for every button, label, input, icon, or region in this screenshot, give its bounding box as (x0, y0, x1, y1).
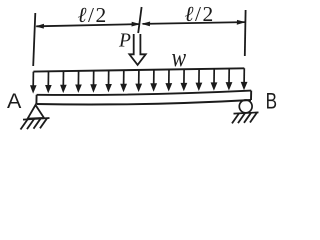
load arrow 15 (241, 68, 248, 90)
pin hatch 3 (34, 119, 41, 129)
svg-text:w: w (172, 44, 187, 72)
distributed load line (33, 68, 244, 71)
roller hatch 3 (244, 113, 251, 123)
beam bottom line (36, 100, 251, 105)
dimension line right half (143, 22, 246, 24)
roller ground line (234, 112, 259, 113)
roller hatch 1 (232, 113, 239, 123)
load arrow 14 (226, 69, 233, 91)
load arrow 1 (30, 72, 37, 94)
pin hatch 1 (21, 120, 28, 130)
dim arrowhead right-right (237, 20, 246, 25)
pin hatch 4 (40, 118, 47, 128)
svg-text:ℓ/2: ℓ/2 (78, 3, 107, 27)
roller support circle (B) (239, 100, 252, 113)
load arrow 8 (135, 70, 142, 92)
load arrow 3 (60, 71, 67, 93)
pin support triangle (A) (28, 105, 44, 119)
load arrow 9 (150, 70, 157, 92)
load arrow 12 (196, 69, 203, 91)
roller hatch 4 (250, 113, 257, 123)
load arrow 4 (75, 71, 82, 93)
dim arrowhead left-left (35, 24, 44, 29)
load arrow 5 (90, 71, 97, 93)
center tick (138, 7, 141, 33)
block arrow P (hollow) (129, 34, 145, 65)
svg-text:P: P (118, 31, 131, 52)
load arrow 11 (181, 69, 188, 91)
beam right edge (250, 91, 252, 100)
pin support ground line (23, 118, 50, 120)
left extension line (33, 13, 35, 66)
dimension line left half (36, 24, 139, 26)
svg-text:B: B (266, 89, 277, 114)
dim arrowhead right-left (141, 22, 150, 27)
load arrow 13 (211, 69, 218, 91)
svg-text:ℓ/2: ℓ/2 (185, 2, 214, 26)
distributed load arrows (30, 68, 248, 93)
dim arrowhead left-right (132, 22, 141, 27)
roller hatch 2 (238, 113, 245, 123)
beam left edge (35, 95, 37, 104)
load arrow 7 (120, 70, 127, 92)
load arrow 6 (105, 70, 112, 92)
svg-text:A: A (7, 89, 22, 113)
load arrow 10 (165, 70, 172, 92)
pin hatch 2 (27, 119, 34, 129)
beam top line (37, 91, 252, 95)
load arrow 2 (45, 71, 52, 93)
right extension line (244, 10, 247, 56)
